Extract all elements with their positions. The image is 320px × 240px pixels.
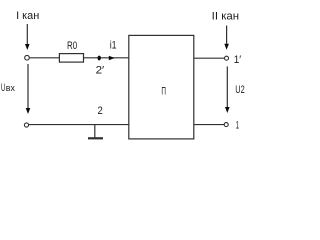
wire node to resistor — [30, 57, 60, 59]
svg-text:1: 1 — [236, 120, 239, 132]
two-port network box П — [129, 35, 194, 138]
svg-text:2′: 2′ — [96, 65, 105, 77]
wire box to node 1' — [194, 57, 225, 59]
svg-text:Uвх: Uвх — [1, 82, 15, 94]
svg-text:I кан: I кан — [16, 10, 39, 22]
svg-text:i1: i1 — [110, 40, 117, 52]
resistor R0 — [59, 54, 83, 63]
wire resistor to box — [84, 57, 129, 59]
wire bottom — [29, 124, 129, 126]
voltage arrow Uвх — [26, 64, 31, 114]
terminal node bottom-left — [24, 123, 28, 127]
svg-text:2: 2 — [98, 105, 103, 117]
ground — [88, 125, 103, 139]
current arrow i1 — [109, 56, 115, 61]
arrow I channel input — [25, 24, 30, 50]
svg-text:R0: R0 — [67, 40, 77, 52]
wire box to node 1 — [194, 124, 225, 126]
terminal node 1 — [224, 123, 228, 127]
arrow II channel output — [224, 26, 229, 50]
voltage arrow U2 — [225, 66, 230, 113]
terminal node 1' — [225, 56, 229, 60]
svg-text:1′: 1′ — [234, 54, 241, 66]
junction dot node 2' — [98, 56, 101, 61]
svg-text:П: П — [161, 85, 166, 97]
terminal node top-left — [25, 55, 30, 60]
svg-text:U2: U2 — [235, 84, 244, 96]
svg-text:II кан: II кан — [212, 11, 239, 23]
